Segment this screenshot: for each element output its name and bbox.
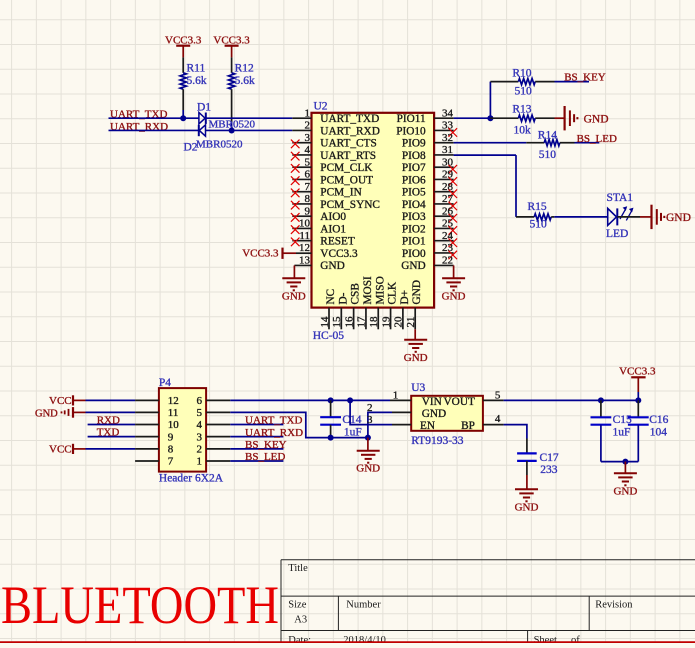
wire P4 pin 6 to U3 VIN [206,399,390,401]
svg-text:5: 5 [495,389,501,401]
U2 pin 32 PIO9 [402,132,454,150]
no-connect X pin 24 [449,238,458,247]
svg-text:15: 15 [331,316,343,328]
svg-text:PCM_CLK: PCM_CLK [320,162,373,174]
svg-text:29: 29 [442,169,454,181]
svg-text:VIN: VIN [422,396,442,408]
P4 pin 9 / pin 3 numbers [168,431,203,443]
wire PIO11 (pin34) [454,117,491,119]
U2 pin 13 GND [299,254,345,272]
resistor R10 510 [490,67,554,97]
svg-text:P4: P4 [159,377,171,389]
svg-text:BS_KEY: BS_KEY [245,439,287,451]
svg-text:4: 4 [305,144,311,156]
wire C15/C16 bottom net [601,461,638,463]
svg-text:PIO3: PIO3 [402,211,426,223]
svg-text:Number: Number [346,599,381,610]
wire PIO8 (pin31) to R15 [454,155,516,217]
diode D2 MBR0520 [184,125,243,154]
ground (C17) [515,489,539,513]
svg-text:PIO0: PIO0 [402,248,426,260]
wire P4 pin 3 UART_RXD [206,436,283,438]
U2 pin 31 PIO8 [402,144,454,162]
svg-text:MOSI: MOSI [362,276,374,304]
U2 pin 4 UART_RTS [292,144,376,162]
ground (U2 pin 21) [404,340,428,364]
svg-text:AIO0: AIO0 [320,211,346,223]
svg-text:Title: Title [288,563,308,574]
svg-text:EN: EN [420,420,435,432]
svg-text:PIO8: PIO8 [402,150,426,162]
svg-text:510: 510 [539,149,557,161]
svg-text:PCM_SYNC: PCM_SYNC [320,199,380,211]
sheet border bottom (red) [0,641,695,643]
no-connect X pin 7 [291,189,300,198]
svg-text:GND: GND [35,409,58,420]
U2 pin 28 PIO5 [402,181,454,199]
svg-text:PIO6: PIO6 [402,174,426,186]
wire R15 to LED [554,216,607,218]
svg-text:18: 18 [368,316,380,328]
svg-text:7: 7 [168,456,174,468]
title block labels [288,563,633,646]
svg-text:3: 3 [367,414,373,426]
svg-text:5.6k: 5.6k [187,75,207,87]
P4 pin 8 / pin 2 numbers [168,444,202,456]
svg-text:GND: GND [411,280,423,304]
resistor R14 510 [526,130,574,161]
diode D1 MBR0520 [197,101,255,130]
ground (U2 pin 22) [442,278,466,302]
svg-text:UART_RXD: UART_RXD [320,125,380,137]
wire P4 pin 11 [86,411,159,413]
svg-text:17: 17 [356,316,368,328]
svg-text:5.6k: 5.6k [235,75,255,87]
wire ground drop (U3) [367,438,369,451]
junction (VOUT / C16 / VCC3.3) [635,397,641,403]
U2 pin 25 PIO2 [402,218,454,236]
svg-text:2: 2 [197,444,203,456]
wire LED to ground [617,216,651,218]
svg-text:27: 27 [442,193,454,205]
svg-text:3: 3 [197,431,203,443]
svg-text:CLK: CLK [387,281,399,304]
svg-text:21: 21 [405,317,417,328]
power VCC3.3 (R11) [165,34,202,57]
svg-text:11: 11 [299,230,310,242]
svg-text:STA1: STA1 [607,192,634,204]
svg-text:4: 4 [495,413,501,425]
svg-text:CSB: CSB [350,283,362,304]
svg-text:UART_TXD: UART_TXD [245,415,302,427]
svg-text:PIO10: PIO10 [396,125,426,137]
wire U2 pin 21 to ground [414,329,416,340]
U3 pin 5 VOUT [483,389,504,401]
svg-text:104: 104 [650,427,668,439]
capacitor C15 1uF [591,400,633,461]
svg-text:5: 5 [197,407,203,419]
svg-text:GND: GND [442,290,466,302]
U2 pin 18 MISO [368,276,386,329]
no-connect X pin 27 [449,202,458,211]
svg-text:6: 6 [305,169,311,181]
svg-text:PCM_IN: PCM_IN [320,187,361,199]
svg-text:GND: GND [404,352,428,364]
svg-text:UART_TXD: UART_TXD [320,113,379,125]
svg-text:2: 2 [367,402,373,414]
U3 pin 3 [367,414,411,426]
U2 pin 12 VCC3.3 [299,242,358,260]
svg-text:233: 233 [540,464,558,476]
junction (R12/UART_RXD) [229,127,235,133]
wire P4 pin 4 UART_TXD [206,424,283,426]
svg-text:PIO1: PIO1 [402,236,426,248]
svg-text:R14: R14 [538,130,557,142]
svg-text:Header 6X2A: Header 6X2A [159,472,224,484]
svg-text:24: 24 [442,230,454,242]
svg-text:PIO7: PIO7 [402,162,426,174]
U2 pin 30 PIO7 [402,156,454,174]
svg-text:19: 19 [380,316,392,328]
svg-text:GND: GND [584,113,609,125]
svg-text:BLUETOOTH: BLUETOOTH [1,575,279,635]
power VCC3.3 (U2 pin 12) [242,247,311,259]
svg-text:UART_RXD: UART_RXD [245,427,303,439]
svg-text:1uF: 1uF [613,427,631,439]
svg-text:RT9193-33: RT9193-33 [411,435,464,447]
svg-text:VCC3.3: VCC3.3 [242,247,279,259]
svg-text:PIO5: PIO5 [402,187,426,199]
svg-text:VCC3.3: VCC3.3 [320,248,358,260]
wire BS_KEY [555,81,590,83]
no-connect X pin 33 [449,128,458,137]
svg-text:D-: D- [337,292,349,304]
svg-text:U2: U2 [314,100,328,112]
U2 pin 34 PIO11 [397,107,454,125]
wire U2 pin 13 to ground [294,265,311,278]
U2 pin 27 PIO4 [402,193,454,211]
power VCC (P4 pin 8) [49,444,86,456]
no-connect X pin 28 [449,189,458,198]
svg-text:C16: C16 [649,414,668,426]
wire BP to C17 [504,425,527,454]
junction (R11/UART_TXD) [180,115,186,121]
junction (VIN wire / C14) [328,397,334,403]
junction (pin34/R10/R13) [487,115,493,121]
wire C17 ground drop [526,475,528,489]
svg-text:PIO4: PIO4 [402,199,426,211]
svg-text:R12: R12 [235,63,254,75]
svg-text:30: 30 [442,156,454,168]
capacitor C14 1uF [320,400,362,438]
U2 pin 6 PCM_OUT [292,169,373,187]
svg-text:1: 1 [305,107,311,119]
U2 pin 16 CSB [343,283,361,329]
no-connect X pin 11 [291,238,300,247]
no-connect X pin 10 [291,225,300,234]
svg-text:R11: R11 [187,63,206,75]
svg-text:Revision: Revision [595,599,633,610]
wire UART_RXD [109,129,293,131]
U2 pin 9 AIO0 [292,205,346,223]
U2 pin 22 GND [401,254,453,272]
LED STA1 [606,192,634,240]
U2 pin 1 UART_TXD [292,107,379,125]
svg-text:4: 4 [197,419,203,431]
wire PIO9 (pin32) [454,142,527,144]
op-amp/IC U2 HC-05 body [312,100,435,342]
U2 pin 8 PCM_SYNC [292,193,380,211]
U2 pin 5 PCM_CLK [292,156,373,174]
U2 pin 20 D+ [393,290,411,329]
svg-text:PIO11: PIO11 [397,113,426,125]
svg-text:3: 3 [305,132,311,144]
svg-text:510: 510 [530,218,548,230]
U2 pin 33 PIO10 [396,120,453,138]
svg-text:D1: D1 [197,101,211,113]
svg-text:11: 11 [168,407,179,419]
P4 pin 12 / pin 6 numbers [168,395,203,407]
svg-text:UART_CTS: UART_CTS [320,138,376,150]
capacitor C16 104 [628,400,669,461]
U2 pin 19 CLK [380,281,398,329]
svg-text:510: 510 [515,85,533,97]
wire P4 pin 9 [88,436,159,438]
U2 pin 29 PIO6 [402,169,454,187]
U2 pin 2 UART_RXD [292,120,380,138]
wire P4 pin 12 [86,399,159,401]
svg-text:GND: GND [515,501,539,513]
svg-text:VCC: VCC [49,395,72,407]
U2 pin 10 AIO1 [292,218,346,236]
svg-text:26: 26 [442,205,454,217]
ground GND (P4 pin 11, sideways) [35,407,86,420]
no-connect X pin 3 [291,140,300,149]
svg-text:HC-05: HC-05 [313,330,345,342]
svg-text:25: 25 [442,218,454,230]
U2 pin 21 GND [405,280,423,329]
svg-text:VCC: VCC [49,444,72,456]
svg-text:R15: R15 [528,201,547,213]
svg-text:1: 1 [197,456,203,468]
no-connect X pin 9 [291,213,300,222]
svg-text:10: 10 [299,218,311,230]
svg-text:C17: C17 [540,452,559,464]
IC U3 RT9193-33 body [411,382,483,447]
svg-text:PIO2: PIO2 [402,223,426,235]
ground (U2 pin 13) [282,278,306,302]
svg-text:23: 23 [442,242,454,254]
svg-text:PIO9: PIO9 [402,138,426,150]
svg-text:GND: GND [666,212,691,224]
U2 pin 14 NC [319,289,337,330]
svg-text:Size: Size [288,599,306,610]
svg-text:2: 2 [305,120,311,132]
svg-text:PCM_OUT: PCM_OUT [320,174,373,186]
no-connect X pin 4 [291,152,300,161]
junction (VOUT / C15) [598,397,604,403]
junction (bottom net / ground drop) [622,459,628,465]
no-connect X pin 26 [449,214,458,223]
svg-text:GND: GND [401,260,425,272]
svg-text:12: 12 [168,395,179,407]
svg-text:8: 8 [168,444,174,456]
svg-text:UART_RTS: UART_RTS [320,150,376,162]
U3 pin 4 BP [483,413,504,425]
svg-text:33: 33 [442,120,454,132]
U2 pin 3 UART_CTS [292,132,376,150]
wire ground drop (C15/C16) [624,462,626,474]
U2 pin 17 MOSI [356,276,374,329]
svg-text:VCC3.3: VCC3.3 [619,365,656,377]
U3 pin 1 [390,390,411,402]
U3 pin 2 [367,402,411,414]
svg-text:RESET: RESET [320,236,355,248]
svg-text:5: 5 [305,156,311,168]
svg-text:10: 10 [168,419,180,431]
svg-text:16: 16 [343,316,355,328]
svg-text:GND: GND [613,485,637,497]
svg-text:LED: LED [606,228,628,240]
U2 pin 15 D- [331,292,349,329]
svg-text:31: 31 [442,144,453,156]
svg-text:MBR0520: MBR0520 [196,139,243,151]
no-connect X pin 25 [449,226,458,235]
svg-text:MISO: MISO [374,276,386,304]
U2 pin 23 PIO0 [402,242,454,260]
wire VOUT [504,399,639,401]
U2 pin 26 PIO3 [402,205,454,223]
svg-text:1: 1 [393,390,399,402]
svg-text:10k: 10k [514,125,532,137]
svg-text:NC: NC [325,289,337,305]
wire U3 GND down [368,412,392,437]
title block frame [281,560,695,643]
svg-text:R13: R13 [512,104,531,116]
svg-text:VOUT: VOUT [444,396,475,408]
svg-text:BS_LED: BS_LED [577,133,617,145]
resistor R13 10k [490,104,554,137]
svg-text:34: 34 [442,107,454,119]
svg-text:R10: R10 [512,67,531,79]
svg-text:BS_LED: BS_LED [245,451,285,463]
U2 pin 7 PCM_IN [292,181,361,199]
wire U2 pin 22 to ground [434,265,454,278]
P4 pin 11 / pin 5 numbers [168,407,203,419]
power VCC (P4 pin 12) [49,395,86,407]
ground (R13, sideways) [565,106,609,130]
no-connect X pin 6 [291,176,300,185]
svg-text:BS_KEY: BS_KEY [564,72,606,84]
no-connect X pin 29 [449,177,458,186]
svg-text:20: 20 [393,316,405,328]
wire P4 pin 8 [86,448,159,450]
junction (VIN wire / EN riser) [347,397,353,403]
wire BS_LED [575,142,600,144]
resistor R15 510 [516,201,554,230]
U2 pin 24 PIO1 [402,230,454,248]
P4 pin 10 / pin 4 numbers [168,419,203,431]
ground (C15/C16) [613,473,637,497]
ground (U3/C14) [356,451,380,475]
no-connect X pin 8 [291,201,300,210]
wire P4 pin 10 [88,424,159,426]
svg-text:GND: GND [320,260,344,272]
wire P4 pin 2 BS_KEY [206,448,283,450]
svg-text:32: 32 [442,132,453,144]
junction (bottom net / C14) [328,435,334,441]
wire P4 pin 7 stub [135,460,159,462]
capacitor C17 233 [517,452,559,476]
svg-text:9: 9 [168,431,174,443]
svg-text:AIO1: AIO1 [320,223,346,235]
svg-text:D+: D+ [399,290,411,305]
wire R13 to ground [555,117,565,119]
svg-text:6: 6 [197,395,203,407]
svg-text:8: 8 [305,193,311,205]
resistor R12 5.6k [229,57,255,130]
svg-text:A3: A3 [294,615,307,626]
svg-text:28: 28 [442,181,454,193]
svg-text:7: 7 [305,181,311,193]
svg-text:9: 9 [305,205,311,217]
svg-text:BP: BP [461,420,475,432]
ground (LED, sideways) [652,205,691,229]
power VCC3.3 (output) [619,365,656,400]
wire UART_TXD [109,117,293,119]
no-connect X pin 30 [449,165,458,174]
no-connect X pin 5 [291,164,300,173]
svg-text:GND: GND [422,408,446,420]
P4 pin 7 / pin 1 numbers [168,456,202,468]
U2 pin 11 RESET [292,230,355,248]
svg-text:U3: U3 [411,382,425,394]
power VCC3.3 (R12) [213,34,250,57]
wire P4 pin 5 to ground net [206,412,331,437]
svg-text:GND: GND [282,290,306,302]
wire riser to R10 [489,82,491,119]
resistor R11 5.6k [180,57,207,118]
connector P4 Header 6X2A body [159,377,224,484]
no-connect X pin 23 [449,251,458,260]
wire bottom net C14 to U3 GND [331,437,368,439]
svg-text:GND: GND [356,463,380,475]
wire riser EN [350,400,392,424]
junction (bottom net / U3 GND riser) [365,435,371,441]
wire P4 pin 1 BS_LED [206,460,283,462]
svg-text:14: 14 [319,316,331,328]
